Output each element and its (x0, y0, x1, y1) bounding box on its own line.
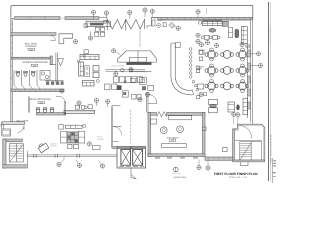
svg-text:FIRST FLOOR FINISH PLAN: FIRST FLOOR FINISH PLAN (214, 172, 258, 176)
svg-text:ISSUED FOR REVIEW: ISSUED FOR REVIEW (269, 25, 272, 44)
svg-text:MEN'S RESTROOM: MEN'S RESTROOM (30, 98, 51, 101)
svg-text:PHONE: PHONE (50, 145, 57, 148)
svg-text:DINING AREA: DINING AREA (173, 176, 187, 179)
svg-text:STORAGE: STORAGE (25, 45, 37, 48)
svg-text:BELL DESK: BELL DESK (25, 43, 38, 46)
svg-text:LOBBY: LOBBY (97, 138, 104, 141)
svg-text:FIRST FLOOR FINISH PLAN: FIRST FLOOR FINISH PLAN (270, 134, 273, 163)
svg-text:BELL STAND: BELL STAND (113, 64, 125, 67)
svg-text:SCALE: 1/8" = 1'-0": SCALE: 1/8" = 1'-0" (229, 176, 247, 179)
svg-text:WOMEN'S RESTROOM: WOMEN'S RESTROOM (23, 61, 48, 64)
